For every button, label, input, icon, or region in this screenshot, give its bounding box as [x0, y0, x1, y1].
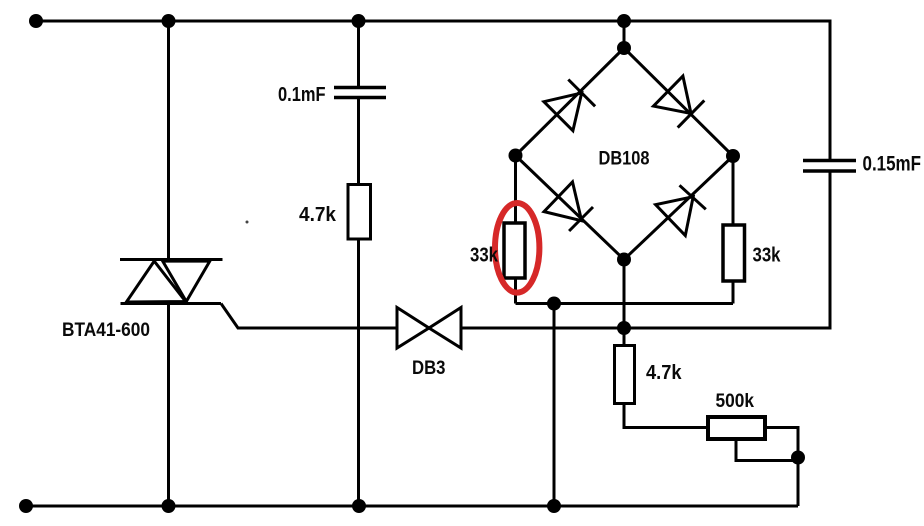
wire right branch lower (C2 bottom plate to gate line) — [829, 171, 832, 330]
junction dot top-left terminal — [29, 14, 43, 28]
diode D3 bridge bottom-left — [544, 182, 593, 231]
highlight ellipse around R2 — [495, 203, 539, 293]
svg-text:0.15mF: 0.15mF — [863, 153, 922, 176]
wire bridge bottom to R4 (crosses mid horizontal, junction at gate line) — [623, 260, 626, 346]
junction dot bridge left node — [509, 149, 523, 163]
diode D2 bridge top-right — [654, 76, 705, 128]
junction dot gate line node — [617, 321, 631, 335]
junction dot wiper node — [791, 451, 805, 465]
wire branch1 top (rail to triac MT2) — [167, 21, 170, 260]
diode D4 bridge bottom-right — [656, 185, 706, 235]
junction dot branch2 bottom — [352, 499, 366, 513]
svg-text:DB3: DB3 — [412, 358, 446, 379]
svg-text:0.1mF: 0.1mF — [278, 84, 326, 106]
stray speck — [246, 221, 249, 224]
junction dot branch1 bottom — [162, 499, 176, 513]
capacitor C1 0.1mF plates — [334, 88, 386, 98]
wire bridge edge top-left — [516, 48, 625, 156]
wire top rail — [31, 20, 830, 23]
wire bridge top stub — [623, 21, 626, 48]
svg-text:4.7k: 4.7k — [299, 204, 337, 226]
wire mid node to bottom rail — [553, 304, 556, 507]
junction dot bridge bottom node — [617, 253, 631, 267]
wire R1 to bottom rail (crosses gate line, no junction) — [357, 239, 360, 506]
wire bridge edge bottom-left — [516, 156, 625, 260]
svg-text:33k: 33k — [753, 245, 782, 267]
wire bridge edge bottom-right — [624, 156, 733, 260]
svg-text:4.7k: 4.7k — [646, 362, 682, 384]
resistor R4 4.7k body — [615, 346, 635, 404]
wire branch1 bottom (triac MT1 to bottom rail) — [167, 304, 170, 507]
wire branch2 rail to C1 — [357, 21, 360, 86]
wire bridge left node to R2 — [514, 156, 517, 224]
junction dot bridge right node — [726, 149, 740, 163]
wire R3 bottom to mid horizontal — [732, 281, 735, 304]
wire R2 bottom to mid node — [514, 278, 517, 304]
svg-text:500k: 500k — [716, 391, 755, 412]
triac Q1 BTA41-600 — [120, 260, 223, 304]
capacitor C2 0.15mF plates — [803, 161, 856, 172]
resistor R5 500k potentiometer body — [708, 417, 765, 439]
resistor R2 33k body (circled) — [504, 223, 525, 278]
wire pot wiper — [736, 439, 798, 461]
resistor R1 4.7k body — [348, 185, 371, 240]
junction dot bridge top node — [617, 41, 631, 55]
wire R4 bottom to pot left — [624, 404, 708, 428]
junction dot mid node — [547, 297, 561, 311]
resistor R3 33k body — [723, 225, 745, 281]
wire C1 to R1 — [357, 99, 360, 185]
wire pot right to bottom rail — [765, 428, 798, 507]
wire right branch upper (rail corner to C2 top plate) — [829, 20, 832, 161]
svg-text:DB108: DB108 — [599, 149, 650, 170]
junction dot bottom-left terminal — [19, 499, 33, 513]
svg-text:33k: 33k — [470, 245, 499, 267]
diode D1 bridge top-left — [544, 80, 595, 131]
wire mid horizontal (R2 bottom to R3 bottom) — [516, 302, 734, 305]
junction dot branch1 top — [162, 14, 176, 28]
wire bottom rail — [26, 505, 798, 508]
diac DB3 — [397, 308, 461, 349]
junction dot branch2 top — [352, 14, 366, 28]
svg-text:BTA41-600: BTA41-600 — [62, 320, 150, 341]
wire bridge edge top-right — [624, 48, 733, 156]
wire triac gate diagonal and to DB3 — [221, 304, 397, 329]
wire bridge right node to R3 — [732, 156, 735, 225]
wire DB3 to right branch (gate line) — [461, 327, 830, 330]
junction dot mid branch bottom — [547, 499, 561, 513]
junction dot bridge feed top — [617, 14, 631, 28]
